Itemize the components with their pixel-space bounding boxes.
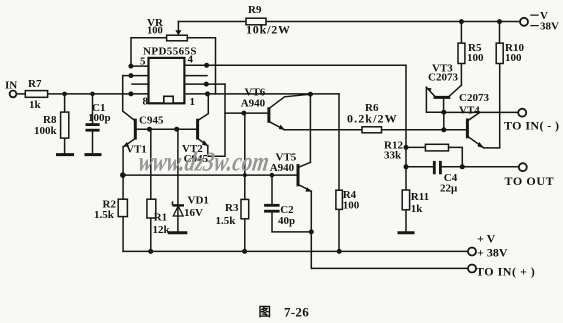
svg-text:10k/2W: 10k/2W — [246, 23, 291, 37]
svg-text:100p: 100p — [88, 112, 111, 124]
svg-text:100k: 100k — [34, 125, 58, 137]
svg-text:R1: R1 — [154, 212, 167, 224]
svg-text:IN: IN — [5, 80, 17, 92]
svg-text:A940: A940 — [241, 98, 266, 110]
svg-text:C2073: C2073 — [459, 92, 489, 104]
svg-text:R9: R9 — [248, 4, 262, 16]
svg-text:1.5k: 1.5k — [216, 215, 237, 227]
svg-text:图: 图 — [259, 305, 272, 319]
svg-text:0.2k/2W: 0.2k/2W — [347, 112, 398, 126]
svg-text:12k: 12k — [153, 224, 171, 236]
svg-text:R11: R11 — [411, 191, 429, 203]
svg-text:7-26: 7-26 — [284, 305, 309, 320]
svg-text:C945: C945 — [139, 115, 164, 127]
svg-text:－38V: －38V — [529, 21, 559, 33]
svg-text:C2073: C2073 — [428, 72, 458, 84]
svg-text:4: 4 — [188, 54, 194, 66]
svg-text:1.5k: 1.5k — [94, 209, 115, 221]
svg-text:5: 5 — [140, 56, 146, 68]
svg-text:A940: A940 — [270, 162, 295, 174]
svg-text:100: 100 — [467, 52, 484, 64]
svg-text:33k: 33k — [384, 150, 402, 162]
svg-text:VT4: VT4 — [459, 105, 480, 117]
svg-text:R7: R7 — [28, 78, 42, 90]
svg-text:R3: R3 — [225, 202, 239, 214]
svg-text:+ V: + V — [477, 232, 496, 246]
svg-text:1: 1 — [190, 96, 196, 108]
svg-text:40p: 40p — [278, 215, 295, 227]
svg-text:100: 100 — [147, 26, 163, 37]
svg-text:VD1: VD1 — [188, 195, 209, 207]
svg-text:100: 100 — [343, 200, 360, 212]
svg-text:16V: 16V — [184, 207, 203, 219]
svg-text:100: 100 — [505, 52, 522, 64]
svg-text:TO IN( - ): TO IN( - ) — [504, 119, 559, 133]
svg-text:1k: 1k — [29, 99, 42, 111]
svg-text:TO OUT: TO OUT — [505, 174, 555, 188]
svg-text:8: 8 — [143, 96, 149, 108]
svg-text:+ 38V: + 38V — [477, 246, 508, 260]
svg-text:1k: 1k — [411, 203, 424, 215]
svg-text:www.dz3w.com: www.dz3w.com — [137, 147, 272, 177]
svg-text:TO IN( + ): TO IN( + ) — [476, 265, 535, 279]
svg-text:22μ: 22μ — [440, 183, 458, 195]
